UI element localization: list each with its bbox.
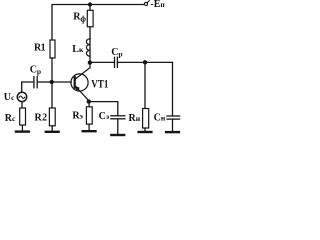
svg-text:VT1: VT1 — [91, 78, 108, 90]
wire: top supply rail — [52, 5, 144, 41]
resistor Rf — [87, 10, 93, 27]
svg-text:Cэ: Cэ — [99, 111, 110, 122]
capacitor Ce — [111, 116, 125, 119]
wire: base node to R2 — [51, 82, 53, 108]
wire: input cap to base node — [37, 81, 52, 83]
resistor Rc — [20, 108, 26, 125]
resistor Re — [86, 107, 92, 124]
ground (Rc) — [16, 130, 29, 132]
label R1 — [34, 42, 46, 53]
label Ce — [99, 111, 110, 122]
wire: Rc to ground — [21, 125, 23, 130]
node: emitter junction — [87, 99, 91, 103]
svg-text:R2: R2 — [35, 112, 48, 123]
label Cn — [154, 113, 166, 124]
wire: Rf to Lk — [89, 27, 91, 39]
label R2 — [35, 112, 48, 123]
wire: collector node to output cap — [90, 61, 114, 63]
label Cp (output) — [111, 47, 122, 59]
wire: output cap to right corner — [117, 61, 172, 63]
wire: Lk bottom to collector node — [89, 56, 91, 62]
capacitor Cp (output coupling) — [115, 57, 118, 67]
label Cp (input) — [30, 65, 41, 77]
label Lk — [72, 44, 84, 55]
wire: Cn to ground — [172, 119, 174, 131]
wire: Uc to Rc — [21, 101, 23, 108]
wire: Re to ground — [88, 124, 90, 130]
svg-text:Uс: Uс — [4, 92, 15, 103]
svg-text:Lк: Lк — [72, 44, 84, 55]
capacitor Cn — [167, 116, 180, 119]
svg-text:Cр: Cр — [30, 65, 41, 77]
wire: emitter node to Ce corner — [89, 102, 118, 116]
wire: base lead — [52, 81, 72, 83]
label -Ep — [150, 0, 165, 10]
label Rn — [129, 113, 141, 124]
svg-text:-Eп: -Eп — [150, 0, 165, 10]
ground (Ce) — [111, 134, 124, 136]
wire: output node to Rn — [144, 62, 146, 108]
svg-text:Rн: Rн — [129, 113, 141, 124]
terminal -Ep — [144, 1, 149, 6]
inductor Lk — [86, 39, 90, 56]
wire: right drop to Cn — [172, 62, 174, 115]
wire: input source riser and to cap — [22, 82, 34, 92]
svg-text:Cн: Cн — [154, 113, 166, 124]
label Re — [72, 111, 83, 122]
svg-text:Rс: Rс — [5, 113, 16, 124]
wire: Rf top lead — [89, 5, 91, 11]
node: collector junction — [88, 60, 92, 64]
ground (Re) — [83, 130, 96, 132]
wire: R1 bottom to base node — [51, 58, 53, 82]
wire: Ce to ground — [117, 119, 119, 134]
ground (R2) — [46, 131, 59, 133]
resistor R1 — [50, 40, 55, 58]
wire: Re top lead — [88, 102, 90, 107]
label Rc — [5, 113, 16, 124]
wire: Rn to ground — [144, 128, 146, 131]
wire: R2 to ground — [51, 126, 53, 131]
label Uc — [4, 92, 15, 103]
label Rf — [73, 12, 86, 24]
ground (Cn) — [166, 131, 179, 133]
capacitor Cp (input coupling) — [34, 77, 37, 88]
transistor VT1 — [71, 63, 90, 101]
ground (Rn) — [139, 131, 152, 133]
svg-text:Cр: Cр — [111, 47, 122, 59]
node: base junction — [50, 80, 54, 84]
label VT1 — [91, 78, 108, 90]
node: output junction — [143, 60, 147, 64]
svg-text:Rэ: Rэ — [72, 111, 83, 122]
resistor Rn — [143, 109, 149, 129]
resistor R2 — [49, 108, 55, 126]
svg-text:R1: R1 — [34, 42, 46, 53]
node: rail junction to Rf — [88, 2, 92, 6]
source Uc — [17, 92, 26, 101]
